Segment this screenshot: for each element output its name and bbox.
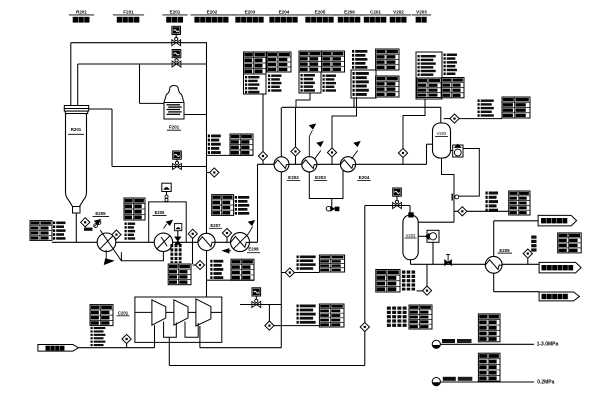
svg-text:R201: R201 xyxy=(76,10,87,15)
svg-text:F201: F201 xyxy=(123,10,134,15)
svg-text:E209: E209 xyxy=(499,248,510,253)
svg-text:V203: V203 xyxy=(406,233,416,238)
svg-text:F201: F201 xyxy=(169,125,180,130)
svg-text:E201: E201 xyxy=(170,10,181,15)
svg-text:E202: E202 xyxy=(207,10,218,15)
svg-text:E205: E205 xyxy=(155,210,165,215)
svg-text:E203: E203 xyxy=(315,175,326,180)
svg-text:E205: E205 xyxy=(95,211,106,216)
svg-text:E202: E202 xyxy=(288,175,299,180)
svg-text:E206: E206 xyxy=(344,10,355,15)
svg-text:V202: V202 xyxy=(437,131,447,136)
svg-text:R201: R201 xyxy=(71,127,82,132)
svg-text:C201: C201 xyxy=(370,10,381,15)
svg-text:E204: E204 xyxy=(279,10,290,15)
svg-text:0.2MPa: 0.2MPa xyxy=(537,379,554,385)
svg-text:V203: V203 xyxy=(416,10,427,15)
svg-text:V202: V202 xyxy=(393,10,404,15)
svg-text:E207: E207 xyxy=(210,223,221,228)
svg-text:E204: E204 xyxy=(359,175,370,180)
svg-text:E208: E208 xyxy=(248,246,259,251)
svg-text:E203: E203 xyxy=(245,10,256,15)
svg-text:E205: E205 xyxy=(315,10,326,15)
svg-text:C201: C201 xyxy=(118,311,129,316)
svg-text:1-3.0MPa: 1-3.0MPa xyxy=(537,342,559,348)
